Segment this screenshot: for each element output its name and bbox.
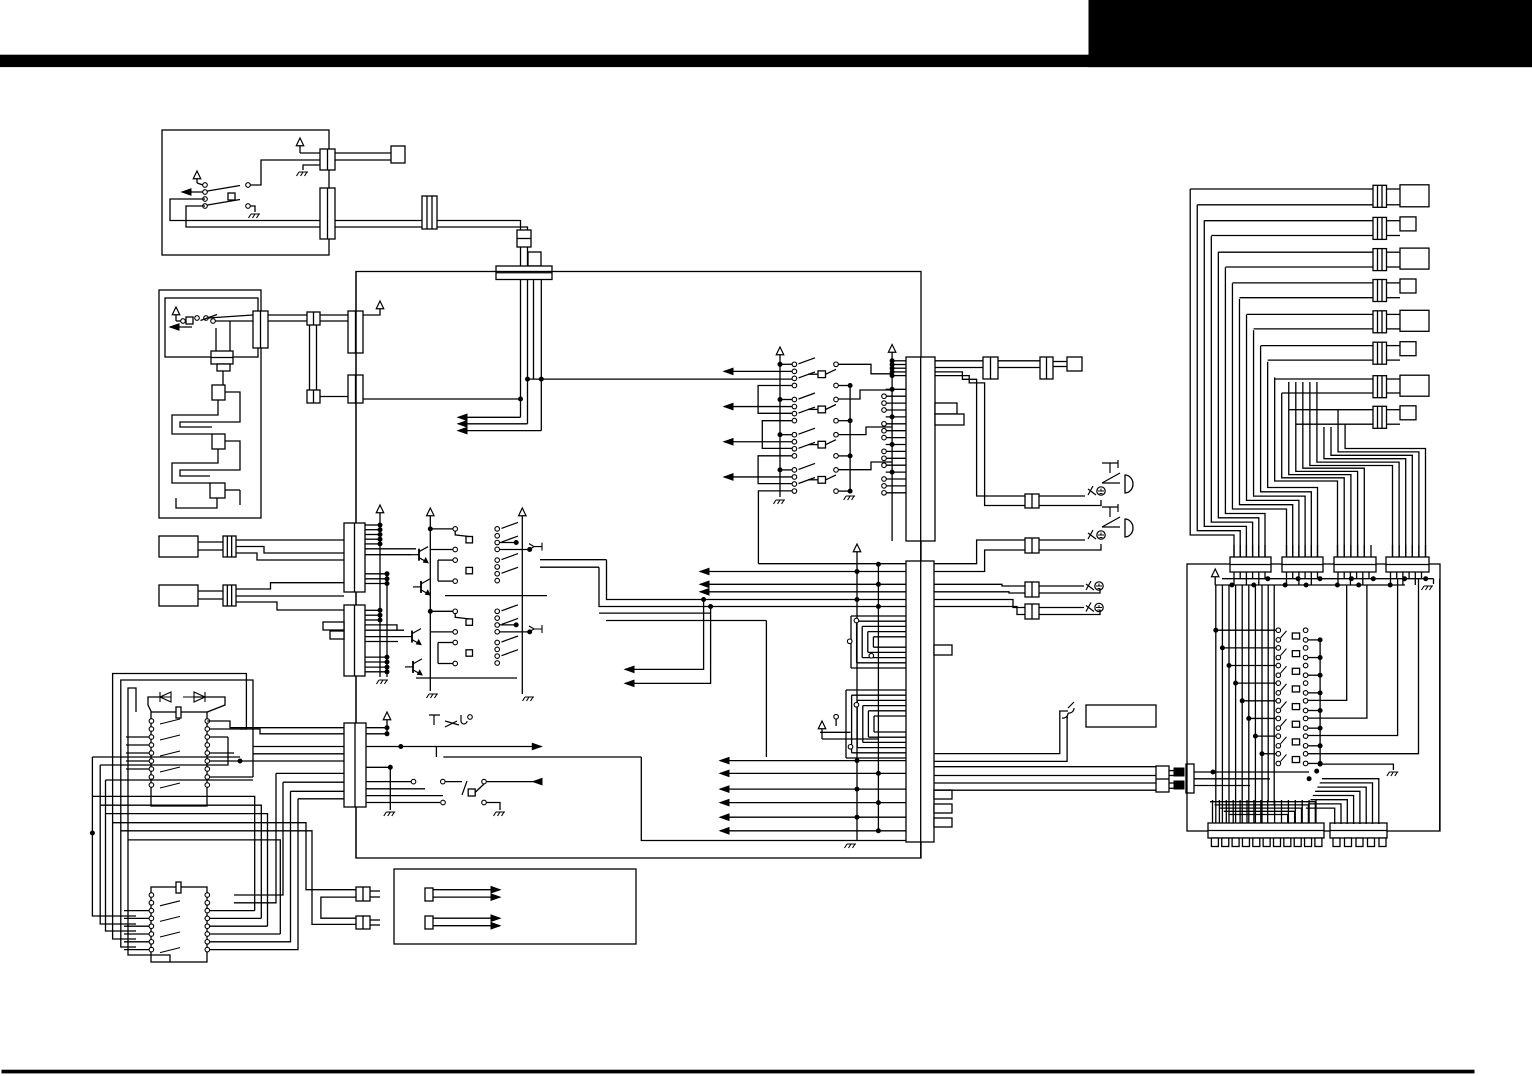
harness wires 1 <box>1190 188 1373 190</box>
bus line 2 <box>1215 584 1405 586</box>
right loop wire 3 <box>1308 579 1398 736</box>
E staircase wire 3 <box>1219 808 1301 823</box>
bus dots <box>1266 577 1270 581</box>
bottom connector E <box>1208 823 1324 838</box>
harness connector 7 <box>1373 376 1387 398</box>
left bank triangle 1 <box>427 508 435 516</box>
triangle small <box>818 721 826 729</box>
keyboard matrix 2 outline <box>151 887 207 962</box>
mid switch bank power triangle <box>776 347 784 355</box>
mid bank relay group 3 <box>792 432 797 437</box>
wires box2 down <box>215 328 217 351</box>
CN2 left nested brackets lower <box>846 689 906 691</box>
sensor1 connector <box>1025 494 1039 508</box>
C3 power triangle <box>383 712 391 720</box>
bundle wire 15 <box>1289 382 1351 557</box>
opto group 1 <box>1276 628 1281 633</box>
F staircase run 2 <box>1320 783 1373 824</box>
harness load box 6 <box>1400 342 1416 356</box>
box A <box>159 536 198 557</box>
left bank pair 1 bottom loop <box>445 595 547 597</box>
bundle wire 8 <box>1239 299 1292 557</box>
bundle wire 7 <box>1232 283 1286 557</box>
opto group 4 <box>1276 681 1281 686</box>
bottom box outline <box>394 869 636 944</box>
CN2 to right box wires <box>934 766 1156 768</box>
photo sensor 2 <box>1102 504 1118 517</box>
bundle wire 13 <box>1275 377 1338 557</box>
harness connector 3 <box>1373 249 1387 271</box>
keyboard loop C <box>128 688 136 832</box>
mid bank inter-group loops <box>758 386 792 414</box>
E staircase wire 5 <box>1228 815 1287 824</box>
diode loop <box>148 697 160 712</box>
F staircase run 6 <box>1311 800 1348 824</box>
E staircase wire 1 <box>1210 802 1315 823</box>
wire S1 to bottom connector <box>170 199 320 221</box>
wire J2 to J3 <box>335 220 422 222</box>
conn1 left stubs <box>886 388 906 390</box>
long wire to bank row3 <box>528 378 793 380</box>
F staircase run 8 <box>1306 808 1335 824</box>
CN2 dot column 2 <box>877 564 879 831</box>
connector C1 <box>344 523 365 592</box>
switch near C3 <box>411 779 416 784</box>
box B <box>159 585 198 606</box>
bottom box internal rect 1 <box>425 888 433 901</box>
C3 left side wires <box>207 721 344 728</box>
connector pin stubs down <box>1233 572 1235 585</box>
CN1 right tabs <box>935 403 957 414</box>
serpentine small box A <box>222 371 224 385</box>
E staircase wire 4 <box>1224 811 1295 823</box>
matrix left wire 3 <box>1229 665 1276 667</box>
C2 tabs <box>323 622 344 630</box>
sensor4 connector <box>1025 604 1039 619</box>
C3 right wires <box>366 727 387 729</box>
C3 row3 wire <box>366 746 401 748</box>
opto group 3 <box>1276 663 1281 668</box>
stack connector J4 <box>517 230 531 247</box>
inline connector right <box>1156 766 1169 792</box>
opto group 5 <box>1276 699 1281 704</box>
C1 wires to Q1 <box>365 548 416 550</box>
serpentine small box C <box>210 483 225 498</box>
wires down arrows mid <box>625 600 704 670</box>
arrow into S1 <box>182 191 203 193</box>
power triangle in box1 <box>296 138 304 146</box>
harness connector 2 <box>1373 217 1387 239</box>
bracket circles lower <box>854 703 859 708</box>
connector C2 <box>344 605 365 676</box>
circle stub <box>834 714 839 719</box>
bundle wire 2 <box>1197 205 1240 557</box>
top connector A <box>1230 557 1271 572</box>
matrix left wire 7 <box>1255 735 1276 737</box>
top connector B <box>1282 557 1323 572</box>
box1 outline <box>162 130 329 255</box>
sensor3 wires left <box>934 584 1025 586</box>
F staircase run 3 <box>1317 787 1366 824</box>
connector A <box>223 536 236 557</box>
header black box top-right <box>1089 0 1532 67</box>
CN2 left nested brackets upper <box>851 615 906 617</box>
connector J1 <box>320 149 335 170</box>
matrix left wire 1 <box>1216 629 1276 631</box>
C2 lower stubs col2 <box>365 656 387 658</box>
bundle wire 5 <box>1218 252 1258 557</box>
bundle wire 12 <box>1268 362 1318 557</box>
bus triangle <box>1211 569 1219 577</box>
opto group 6 <box>1276 716 1281 721</box>
matrix2 riser joins <box>234 910 255 912</box>
solenoid symbol <box>429 715 467 727</box>
opto group 8 <box>1276 751 1281 756</box>
tall connector C0b <box>348 375 363 403</box>
harness connector 8 <box>1373 406 1387 428</box>
big connector CN1 <box>906 357 935 541</box>
right loop wire 1 <box>1308 585 1347 700</box>
bundle wire 20 <box>1324 427 1406 557</box>
right box outline <box>1187 564 1440 831</box>
opto group 7 <box>1276 734 1281 739</box>
three arrows left <box>458 416 521 418</box>
inline connector J3 <box>422 196 437 229</box>
stub connector on bus <box>528 252 541 266</box>
matrix right bus <box>1319 640 1321 764</box>
opto group 2 <box>1276 646 1281 651</box>
mid bank relay group 4 <box>792 468 797 473</box>
matrix2 left stubs <box>124 910 149 912</box>
mid bank relay group 1 <box>792 362 797 367</box>
harness load box 1 <box>1400 185 1429 207</box>
C2 wires to Q3 <box>365 625 397 630</box>
matrix2 rows <box>149 893 154 898</box>
junction dots bus verticals <box>519 397 523 401</box>
connector B <box>223 585 236 606</box>
central box outline <box>356 272 921 859</box>
bundle wire 21 <box>1331 427 1412 557</box>
bottom connector 1 <box>356 887 370 901</box>
F staircase run 4 <box>1315 791 1360 824</box>
C1 right stubs to bus <box>365 524 380 526</box>
bottom rule <box>2 1070 1474 1073</box>
left bank transistors <box>418 549 420 561</box>
matrix1 left stubs <box>126 736 149 738</box>
loop bottom horizontals <box>92 756 240 758</box>
harness connector 6 <box>1373 342 1387 364</box>
bundle wire 9 <box>1247 315 1299 557</box>
fuse symbol + label box <box>1062 702 1074 718</box>
wire C0b to junction <box>363 398 521 400</box>
serpentine small box B <box>212 434 225 449</box>
u-loop to bottom connectors <box>321 897 356 918</box>
bottom connector 2 <box>356 916 370 929</box>
left bank pair 2 bottom loop <box>416 677 517 679</box>
harness load box 7 <box>1400 375 1429 396</box>
harness load box 4 <box>1400 279 1416 293</box>
bundle wire 18 <box>1310 382 1393 557</box>
connector F teeth <box>1333 838 1340 847</box>
matrix1 top component <box>176 707 181 718</box>
mid bank relay group 2 <box>792 397 797 402</box>
bundle wires into CN2 <box>758 563 906 565</box>
matrix2 top component <box>176 882 181 893</box>
bottom box internal rect 2 <box>425 916 433 929</box>
matrix ground wire <box>1320 764 1393 770</box>
triangle at C0a <box>363 309 380 315</box>
bus ground right <box>1433 579 1435 584</box>
bundle wire 4 <box>1211 236 1252 557</box>
verticals from bus connector down <box>520 280 522 418</box>
sensor3 connector <box>1025 582 1039 597</box>
E staircase wire 2 <box>1215 805 1309 823</box>
harness wires 6 <box>1261 345 1373 347</box>
wire J3 to stack connector <box>437 221 521 231</box>
harness wires 7 <box>1275 378 1373 380</box>
C3 lower wires to switch <box>366 781 411 783</box>
small connector pair top <box>307 312 320 325</box>
sensor2 wires left <box>934 540 1025 564</box>
edge connector plate <box>1186 764 1194 793</box>
bundle wire 19 <box>1317 382 1399 557</box>
harness connector 1 <box>1373 185 1387 207</box>
wide bus connector J5 <box>496 266 552 280</box>
photo sensor 4 (switch) <box>1086 603 1094 612</box>
central box right edge continues <box>920 541 922 561</box>
dots on columns <box>855 570 859 574</box>
arrow wires into CN2 <box>720 760 906 762</box>
C1 right bus column <box>376 505 384 513</box>
inner coupler <box>186 317 193 324</box>
arrow into inner switch <box>170 326 192 328</box>
header black bar <box>0 55 1532 66</box>
switch S1 circles <box>203 183 208 188</box>
connector C3 <box>344 723 366 807</box>
photo sensor 1 <box>1102 460 1118 473</box>
wires inner switch right <box>215 320 253 322</box>
CN1 right wires to small connectors <box>935 360 983 362</box>
CN1 wires to photo sensors <box>935 372 1025 496</box>
C3 row4 wire + dots <box>366 766 390 768</box>
F staircase run 1 <box>1322 779 1379 824</box>
short verticals below bus <box>1267 585 1269 802</box>
matrix1 rows <box>149 719 154 724</box>
long wire from C3 region right <box>443 756 641 758</box>
S1 blades <box>208 186 241 192</box>
matrix2 right stubs <box>209 910 234 912</box>
vertical pair between small connectors <box>309 325 311 390</box>
wire J1 to plug <box>335 152 391 154</box>
wires B to C1/C2 <box>236 583 344 589</box>
box2 inner box <box>165 298 258 357</box>
top connector C <box>1334 557 1376 572</box>
S1 coupler box <box>228 193 235 200</box>
connector straddling box2 right <box>253 311 268 348</box>
wires box2 to C0a <box>268 314 307 316</box>
keyboard loop B <box>121 680 253 824</box>
bundle wire 14 <box>1282 393 1344 557</box>
stubs after connector <box>1169 770 1180 772</box>
long verticals bus to connE <box>1215 585 1217 823</box>
matrix left wire 6 <box>1249 717 1276 719</box>
edge connector wires <box>1194 771 1309 773</box>
CN2 right tabs <box>934 645 952 655</box>
ground stub box1 <box>303 165 320 170</box>
CN2 power triangle <box>853 544 861 552</box>
right edge vertical <box>1439 579 1441 831</box>
F staircase run 5 <box>1313 796 1354 825</box>
sensor4 wires left <box>934 600 1025 608</box>
bundle wire 16 <box>1296 382 1358 557</box>
small connector pair bottom <box>307 390 320 403</box>
wires J4 down <box>520 247 522 266</box>
harness load box 5 <box>1400 310 1429 331</box>
box2 outline <box>159 290 261 518</box>
bundle wire 1 <box>1190 189 1234 557</box>
keyboard diode pair <box>160 692 205 702</box>
keyboard matrix 1 outline <box>151 712 207 806</box>
harness wires 5 <box>1247 313 1373 315</box>
harness wires 8 <box>1289 409 1373 411</box>
conn E comb verticals <box>1212 800 1214 823</box>
bundle wire 17 <box>1303 382 1364 557</box>
mid bank right bus <box>849 385 851 493</box>
wires A to C1 <box>236 539 344 541</box>
matrix left wire 5 <box>1242 700 1276 702</box>
harness wires 3 <box>1218 251 1373 253</box>
connector pin stubs above <box>1233 545 1235 557</box>
junction dots on bundle <box>702 598 706 602</box>
bundle wire 10 <box>1254 330 1306 557</box>
matrix left wire 8 <box>1262 753 1276 755</box>
left bank relay pair 2 <box>453 609 458 614</box>
left bank triangle 2 <box>519 508 527 516</box>
C2 right stubs to bus <box>365 609 380 611</box>
bundle wire 3 <box>1204 220 1246 557</box>
right loop wire 2 <box>1308 585 1367 718</box>
bundle wire 23 <box>1345 424 1425 557</box>
top connector D <box>1386 557 1429 572</box>
tall connector C0a <box>348 311 363 353</box>
big connector CN2 <box>906 561 934 842</box>
serpentine path 1 <box>172 400 218 434</box>
right loop wire 4 <box>1308 579 1419 754</box>
matrix1 right stubs <box>209 728 240 730</box>
C1 lower stubs col2 <box>386 574 388 677</box>
power triangle conn1 <box>888 345 896 353</box>
connector J2 <box>320 188 335 239</box>
bottom connector F <box>1330 823 1387 838</box>
power triangle box2 <box>172 307 180 315</box>
harness wires 4 <box>1232 282 1373 284</box>
S1 lower wire <box>246 204 251 209</box>
matrix left wire 4 <box>1236 682 1276 684</box>
wires fuse left <box>934 711 1068 754</box>
harness wires 2 <box>1204 220 1373 222</box>
matrix left wire 2 <box>1222 647 1276 649</box>
harness load box 3 <box>1400 248 1429 269</box>
plug square <box>391 146 405 163</box>
inner switch circles <box>181 319 186 324</box>
conn1 top stubs <box>892 360 906 362</box>
photo sensor 3 (switch) <box>1086 581 1094 590</box>
S1 wire up <box>246 183 251 188</box>
keyboard loop A <box>113 674 247 817</box>
box2 lower connector <box>211 351 233 364</box>
harness load box 8 <box>1400 406 1416 420</box>
central box left edge segments <box>355 272 357 524</box>
bracket circles upper <box>854 618 859 623</box>
mid bank wires to connector <box>838 364 892 374</box>
wire down to C3 area <box>765 621 767 758</box>
bus line 1 <box>1222 578 1434 580</box>
connector E teeth <box>1211 838 1218 847</box>
bundle wire 11 <box>1261 346 1312 557</box>
power triangle S1 <box>193 171 201 179</box>
harness connector 4 <box>1373 280 1387 302</box>
bundle wire 6 <box>1225 268 1265 558</box>
harness load box 2 <box>1400 217 1416 231</box>
left bank relay pair 1 <box>453 527 458 532</box>
harness connector 5 <box>1373 311 1387 333</box>
sensor2 connector <box>1025 538 1039 553</box>
left long verticals <box>92 757 136 916</box>
F staircase run 7 <box>1308 804 1341 824</box>
bundle wire 22 <box>1338 410 1419 557</box>
